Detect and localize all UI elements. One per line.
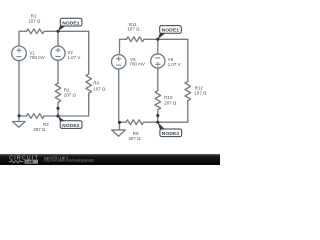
resistor R10 bbox=[155, 91, 161, 110]
node NODE2 right leader bbox=[158, 122, 165, 131]
svg-text:107 Ω: 107 Ω bbox=[127, 27, 140, 32]
svg-text:LAB: LAB bbox=[26, 160, 34, 164]
resistor R3 bbox=[27, 114, 44, 119]
svg-text:NODE2: NODE2 bbox=[62, 123, 80, 129]
node NODE2 left leader bbox=[58, 116, 65, 123]
wire top rail right of R11 bbox=[144, 38, 188, 40]
svg-text:700 mV: 700 mV bbox=[29, 55, 45, 60]
junction R2 column bbox=[56, 107, 59, 110]
junction R10 column bbox=[156, 114, 159, 117]
wire V2 top stub bbox=[57, 31, 59, 46]
footer bar bbox=[0, 154, 220, 165]
resistor R9 bbox=[126, 120, 143, 125]
node NODE1 left bbox=[60, 18, 82, 26]
svg-text:307 Ω: 307 Ω bbox=[33, 127, 46, 132]
node NODE1 right bbox=[160, 26, 182, 34]
wire right circuit top rail left segment bbox=[120, 39, 127, 55]
wire R4 bottom to rail bbox=[58, 93, 89, 116]
svg-text:1.07 V: 1.07 V bbox=[67, 55, 80, 60]
svg-text:700 mV: 700 mV bbox=[129, 62, 145, 67]
wire R12 bottom to rail bbox=[158, 101, 188, 123]
wire V6 top stub bbox=[157, 39, 159, 54]
junction ground right bbox=[118, 121, 121, 124]
junction node2 right bbox=[156, 121, 159, 124]
voltage source V5 bbox=[112, 55, 126, 69]
node NODE1 right leader bbox=[158, 32, 165, 40]
resistor R4 bbox=[86, 74, 92, 93]
wire V5 bottom to rail bbox=[118, 69, 120, 122]
ground left stem bbox=[18, 116, 20, 122]
svg-text:107 Ω: 107 Ω bbox=[194, 91, 207, 96]
wire R10 to node2 bbox=[157, 110, 159, 122]
voltage source V1 bbox=[12, 46, 27, 61]
junction node2 left bbox=[56, 114, 59, 117]
resistor R1 bbox=[27, 29, 44, 34]
svg-text:R4: R4 bbox=[93, 80, 99, 85]
wire right column R4 bbox=[88, 31, 90, 74]
svg-text:NODE1: NODE1 bbox=[62, 20, 80, 26]
svg-text:107 Ω: 107 Ω bbox=[28, 19, 41, 24]
wire V2 bottom to R2 bbox=[57, 60, 59, 83]
resistor R12 bbox=[185, 82, 191, 101]
wire R2 to node2 bbox=[57, 102, 59, 116]
wire V1 bottom to rail bbox=[18, 61, 20, 116]
svg-text:307 Ω: 307 Ω bbox=[128, 136, 141, 141]
svg-text:R12: R12 bbox=[195, 85, 204, 90]
wire bottom rail right circuit bbox=[120, 121, 127, 123]
wire R9 to node2 right bbox=[144, 121, 158, 123]
wire R3 to node2 bbox=[44, 115, 58, 117]
svg-text:NODE2: NODE2 bbox=[162, 131, 180, 137]
resistor R11 bbox=[127, 37, 144, 42]
junction node1 left bbox=[56, 30, 59, 33]
junction node1 right bbox=[156, 38, 159, 41]
wire V6 bottom to R10 bbox=[157, 68, 159, 91]
ground right stem bbox=[119, 122, 121, 130]
svg-text:http://circuitlab.com/cm43tg/l: http://circuitlab.com/cm43tg/lymqcb bbox=[44, 159, 94, 163]
voltage source V6 bbox=[151, 54, 165, 68]
node NODE1 left leader bbox=[58, 24, 65, 31]
node NODE2 left bbox=[60, 121, 82, 129]
wire left circuit top rail left segment bbox=[19, 31, 27, 46]
node NODE2 right bbox=[160, 129, 182, 137]
ground right bbox=[112, 130, 126, 136]
svg-text:107 Ω: 107 Ω bbox=[93, 86, 106, 91]
wire top rail right of R1 bbox=[44, 30, 89, 32]
svg-text:NODE1: NODE1 bbox=[162, 28, 180, 34]
ground left bbox=[12, 122, 25, 128]
resistor R2 bbox=[55, 83, 61, 102]
svg-text:207 Ω: 207 Ω bbox=[64, 93, 77, 98]
junction ground left bbox=[17, 114, 20, 117]
footer logo LAB bbox=[25, 160, 38, 164]
svg-text:207 Ω: 207 Ω bbox=[164, 100, 177, 105]
wire bottom rail left / resistor R3 leads bbox=[19, 115, 27, 117]
junction dots bbox=[17, 30, 159, 124]
footer logo zigzag bbox=[9, 161, 24, 163]
wire right column R12 top bbox=[187, 39, 189, 81]
svg-text:1.07 V: 1.07 V bbox=[168, 62, 181, 67]
voltage source V2 bbox=[51, 46, 65, 60]
